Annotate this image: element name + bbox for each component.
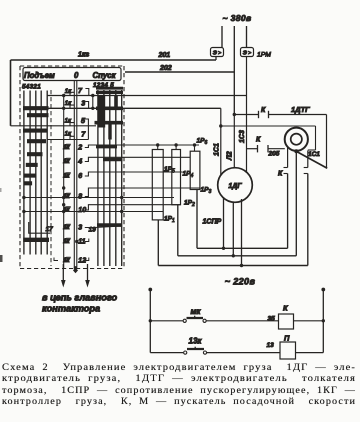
- svg-text:13к: 13к: [189, 337, 203, 346]
- svg-text:мк: мк: [191, 307, 202, 316]
- svg-text:6: 6: [78, 173, 82, 180]
- svg-text:>: >: [218, 50, 222, 56]
- svg-text:35: 35: [268, 316, 276, 323]
- svg-text:Спуск: Спуск: [93, 71, 117, 80]
- svg-text:1ДТГ: 1ДТГ: [291, 105, 310, 114]
- svg-text:1ДГ: 1ДГ: [228, 183, 242, 190]
- svg-text:7: 7: [81, 129, 86, 138]
- svg-text:5: 5: [172, 169, 175, 175]
- svg-text:202: 202: [159, 65, 172, 72]
- svg-text:12: 12: [78, 258, 86, 265]
- svg-text:1С1: 1С1: [308, 151, 320, 158]
- svg-text:13: 13: [267, 342, 275, 349]
- svg-text:3: 3: [78, 225, 82, 232]
- svg-text:К: К: [283, 304, 289, 313]
- svg-text:4: 4: [191, 173, 194, 179]
- svg-text:К: К: [261, 107, 266, 114]
- svg-text:2: 2: [191, 202, 195, 208]
- svg-text:3: 3: [209, 189, 212, 195]
- svg-text:201: 201: [158, 52, 171, 59]
- svg-text:1С1: 1С1: [214, 143, 221, 156]
- svg-text:1к: 1к: [65, 119, 72, 125]
- svg-text:0: 0: [74, 71, 79, 80]
- svg-text:1к: 1к: [65, 101, 72, 107]
- svg-text:Л2: Л2: [227, 151, 234, 161]
- svg-text:5: 5: [81, 116, 86, 125]
- svg-text:в цепь главного: в цепь главного: [42, 293, 118, 303]
- svg-text:10: 10: [78, 207, 86, 214]
- svg-text:54321: 54321: [22, 84, 41, 91]
- svg-text:7: 7: [78, 86, 83, 95]
- svg-text:контактора: контактора: [42, 304, 100, 314]
- svg-text:Подъем: Подъем: [24, 71, 55, 80]
- svg-text:1кг: 1кг: [78, 52, 89, 59]
- svg-text:Э: Э: [213, 51, 218, 57]
- svg-text:6: 6: [205, 140, 208, 146]
- svg-text:~ 380в: ~ 380в: [222, 13, 251, 23]
- svg-text:4: 4: [77, 159, 82, 166]
- svg-text:~ 220в: ~ 220в: [225, 277, 256, 287]
- svg-text:>: >: [248, 50, 252, 56]
- svg-text:1СПР: 1СПР: [203, 219, 222, 226]
- svg-text:3: 3: [81, 98, 85, 107]
- svg-text:11: 11: [78, 239, 85, 246]
- svg-text:Э: Э: [243, 51, 248, 57]
- svg-text:1С3: 1С3: [239, 130, 246, 143]
- svg-text:К: К: [256, 137, 261, 144]
- svg-text:1: 1: [172, 218, 175, 224]
- svg-text:К: К: [278, 171, 283, 178]
- svg-text:1РМ: 1РМ: [257, 52, 271, 59]
- svg-text:17: 17: [46, 226, 54, 233]
- svg-text:П: П: [284, 334, 290, 343]
- svg-text:205: 205: [268, 151, 280, 158]
- svg-text:2: 2: [77, 145, 82, 152]
